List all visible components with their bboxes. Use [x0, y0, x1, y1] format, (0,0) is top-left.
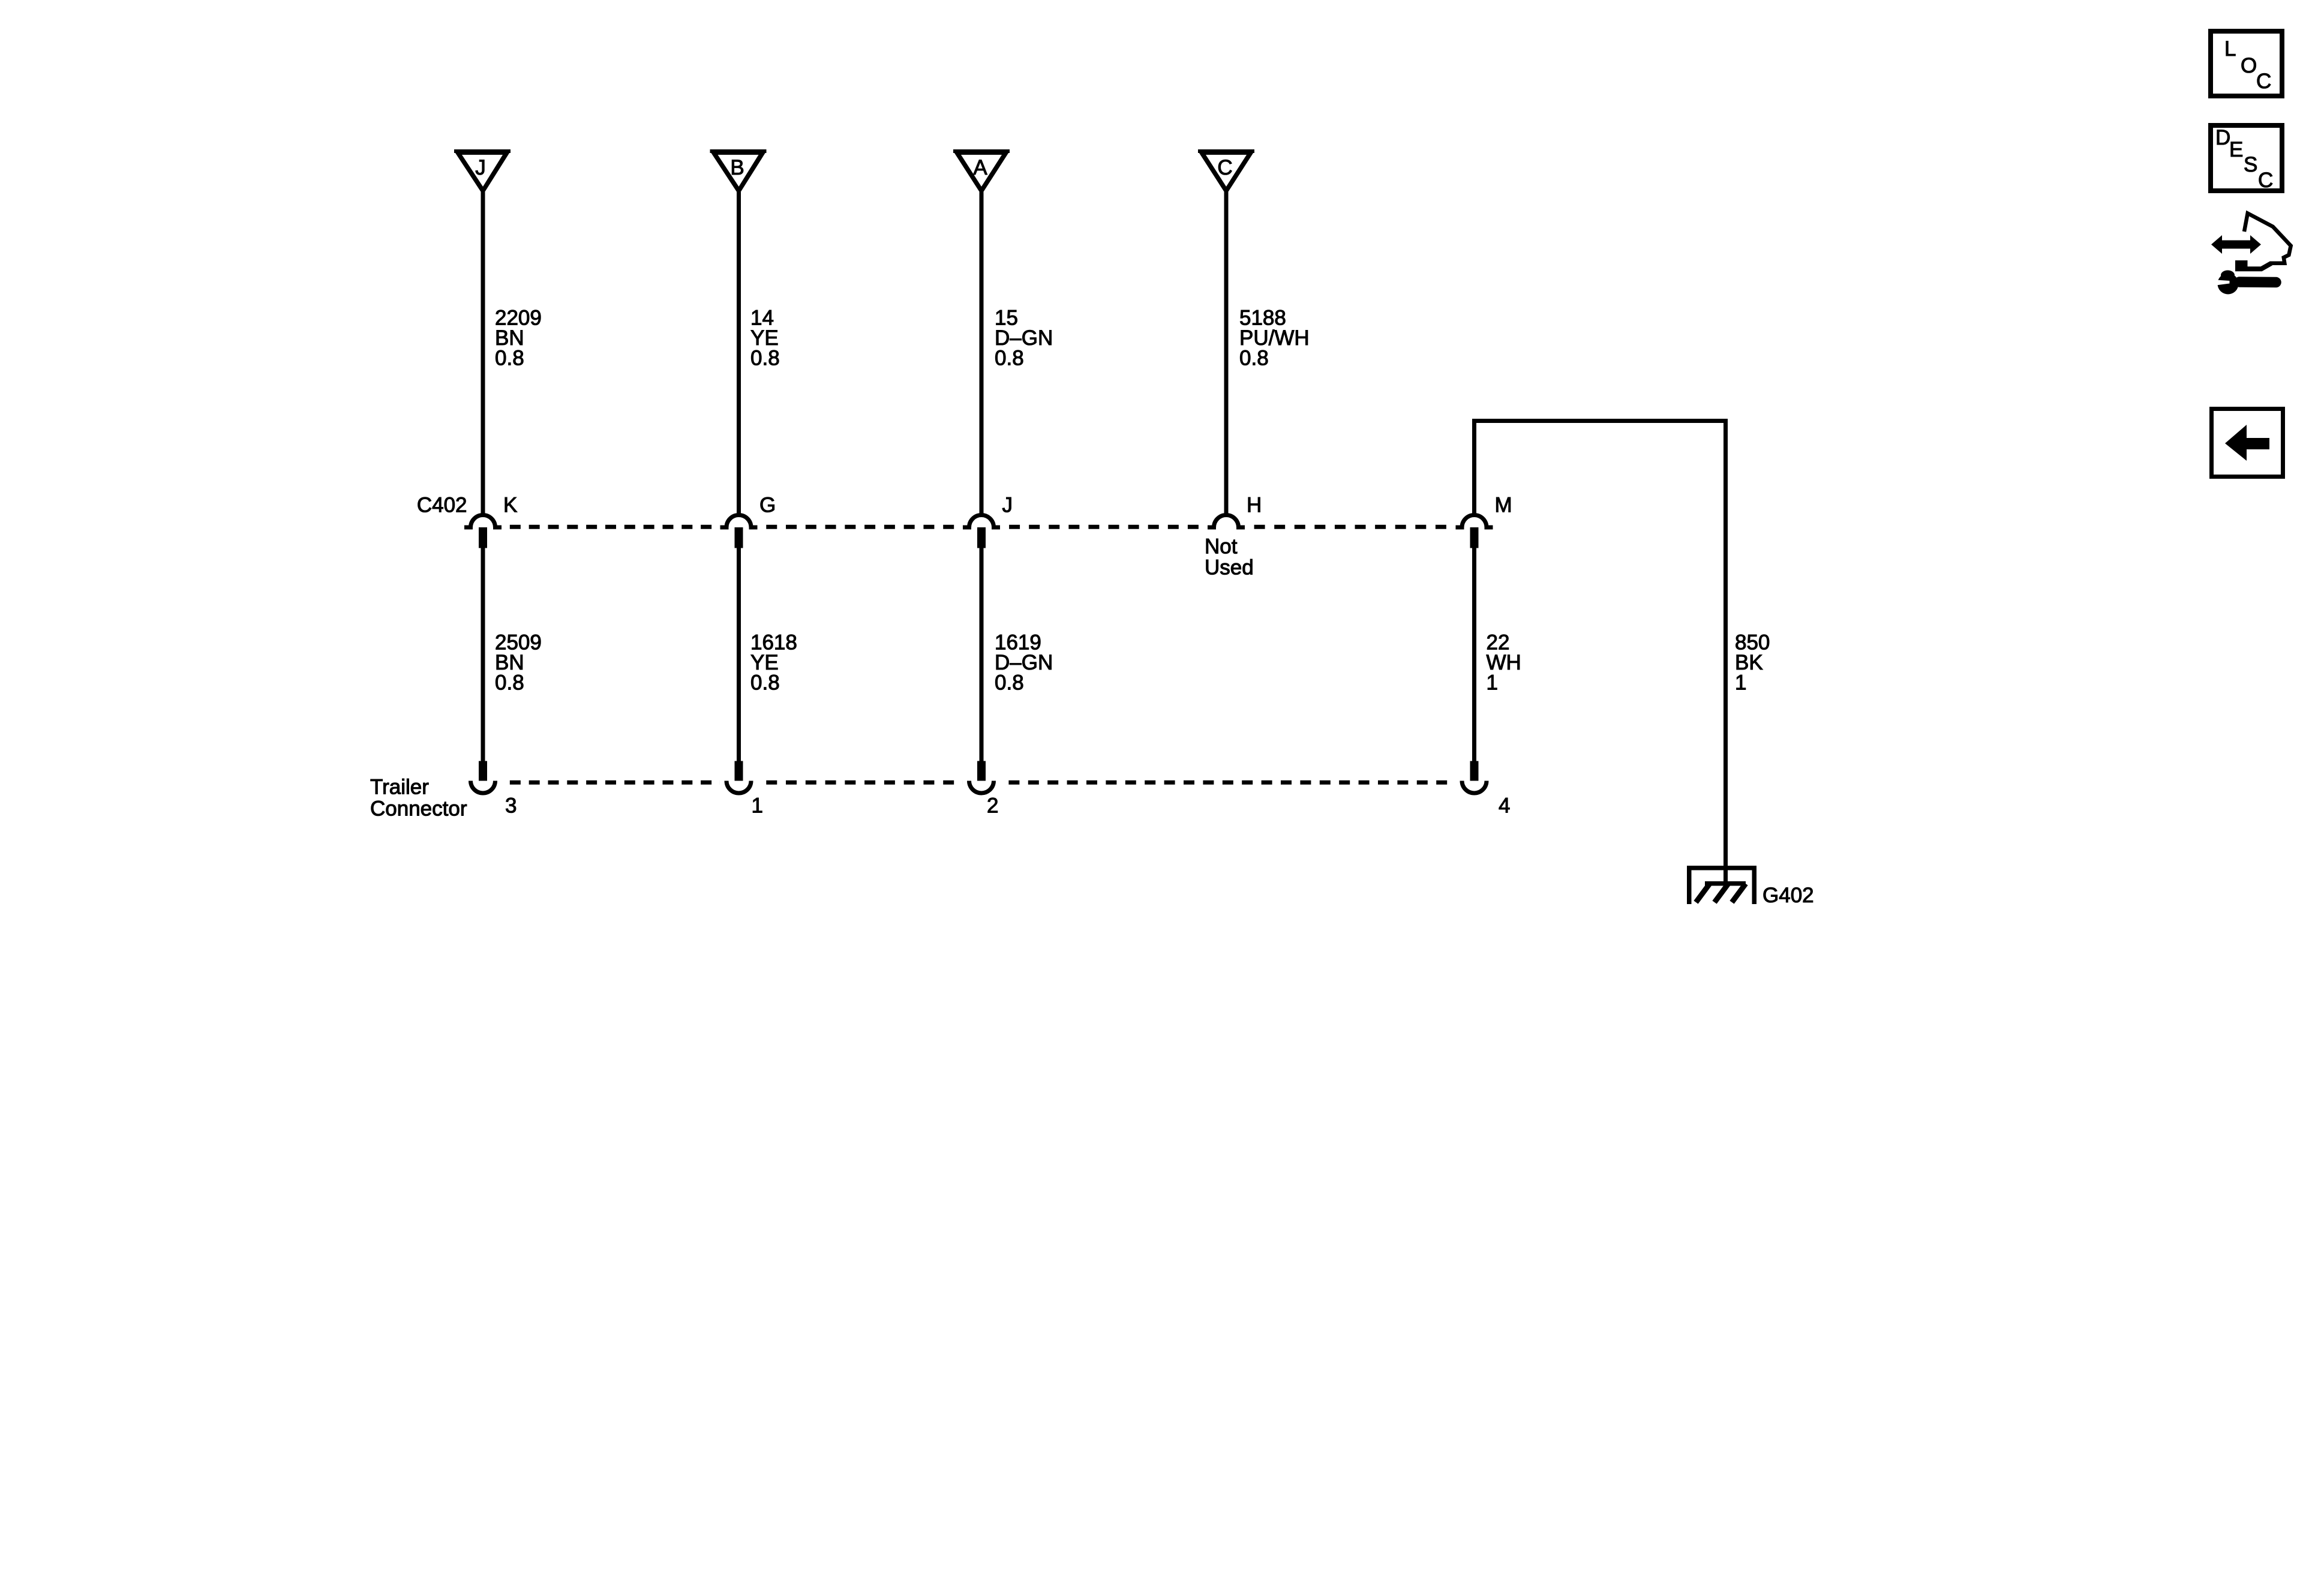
- off-page connector triangle C: [1198, 149, 1254, 195]
- icon diagnostic wrench with double arrow: [2211, 214, 2291, 295]
- svg-text:4: 4: [1499, 794, 1510, 818]
- top horizontal wire from M column to ground wire: [1472, 419, 1728, 423]
- svg-text:A: A: [973, 156, 987, 179]
- svg-text:Not: Not: [1205, 535, 1238, 559]
- svg-text:M: M: [1495, 494, 1512, 517]
- off-page connector triangle A: [953, 149, 1010, 195]
- dashed harness line 3 to 1: [502, 781, 720, 785]
- dashed harness line 1 to 2: [758, 781, 963, 785]
- trailer connector pin 1: [726, 761, 763, 818]
- label wire 22 WH 1: [1487, 631, 1521, 695]
- svg-text:Trailer: Trailer: [370, 776, 429, 799]
- svg-text:0.8: 0.8: [495, 347, 524, 370]
- wire C402 pin J to trailer pin 2: [980, 548, 984, 761]
- wire 850 BK down to ground: [1724, 419, 1728, 885]
- trailer connector pin 2: [969, 761, 999, 818]
- svg-text:0.8: 0.8: [750, 347, 780, 370]
- trailer connector pin 4: [1462, 761, 1510, 818]
- wire A to C402 pin J: [980, 192, 984, 514]
- icon box back arrow: [2212, 409, 2283, 477]
- connector C402 pin M: [1456, 494, 1512, 548]
- svg-text:K: K: [503, 494, 517, 517]
- svg-text:1: 1: [752, 794, 763, 818]
- svg-text:J: J: [1002, 494, 1013, 517]
- wire J to C402 pin K: [481, 192, 485, 514]
- wire C to C402 pin H: [1224, 192, 1229, 514]
- wire B to C402 pin G: [737, 192, 741, 514]
- svg-text:0.8: 0.8: [1239, 347, 1269, 370]
- svg-text:O: O: [2241, 54, 2257, 77]
- svg-text:0.8: 0.8: [750, 671, 780, 695]
- connector C402 pin H (not used): [1208, 494, 1262, 528]
- svg-text:G402: G402: [1762, 884, 1814, 907]
- svg-text:C402: C402: [417, 494, 467, 517]
- svg-text:J: J: [475, 156, 486, 179]
- svg-text:H: H: [1247, 494, 1262, 517]
- svg-text:0.8: 0.8: [495, 671, 524, 695]
- svg-text:1: 1: [1487, 671, 1498, 695]
- svg-text:3: 3: [505, 794, 517, 818]
- dashed harness line J to H: [1000, 525, 1208, 529]
- label wire 5188 PU/WH 0.8: [1239, 307, 1310, 370]
- label wire 1619 D-GN 0.8: [995, 631, 1053, 695]
- svg-text:Used: Used: [1205, 556, 1254, 580]
- svg-text:C: C: [2256, 70, 2271, 93]
- svg-text:E: E: [2229, 138, 2243, 161]
- svg-text:C: C: [1217, 156, 1232, 179]
- label wire 2209 BN 0.8: [495, 307, 542, 370]
- connector C402 pin K: [464, 494, 517, 548]
- svg-text:2: 2: [987, 794, 998, 818]
- trailer connector pin 3: [471, 761, 517, 818]
- label wire 14 YE 0.8: [750, 307, 780, 370]
- label wire 2509 BN 0.8: [495, 631, 542, 695]
- svg-text:D: D: [2215, 126, 2230, 149]
- connector C402 pin J: [963, 494, 1013, 548]
- icon box LOC: [2211, 31, 2282, 96]
- wire C402 pin M to trailer pin 4: [1472, 548, 1476, 761]
- dashed harness line 2 to 4: [1000, 781, 1456, 785]
- dashed harness line G to J: [758, 525, 963, 529]
- svg-text:Connector: Connector: [370, 797, 467, 821]
- wire C402 pin G to trailer pin 1: [737, 548, 741, 761]
- svg-text:G: G: [759, 494, 776, 517]
- off-page connector triangle J: [454, 149, 511, 195]
- svg-text:L: L: [2224, 37, 2236, 61]
- label Not Used: [1205, 535, 1254, 580]
- label wire 15 D-GN 0.8: [995, 307, 1053, 370]
- label wire 850 BK 1: [1735, 631, 1770, 695]
- svg-text:B: B: [730, 156, 744, 179]
- svg-text:C: C: [2258, 169, 2273, 192]
- label Trailer Connector: [370, 776, 467, 821]
- connector C402 pin G: [720, 494, 776, 548]
- svg-text:0.8: 0.8: [995, 347, 1024, 370]
- svg-text:S: S: [2244, 153, 2257, 176]
- wire C402 pin K to trailer pin 3: [481, 548, 485, 761]
- label wire 1618 YE 0.8: [750, 631, 797, 695]
- dashed harness line H to M: [1245, 525, 1456, 529]
- svg-text:0.8: 0.8: [995, 671, 1024, 695]
- svg-text:1: 1: [1735, 671, 1746, 695]
- icon box DESC: [2211, 125, 2282, 192]
- off-page connector triangle B: [710, 149, 767, 195]
- dashed harness line K to G: [502, 525, 720, 529]
- wire down to C402 pin M: [1472, 419, 1476, 514]
- ground G402: [1689, 868, 1814, 907]
